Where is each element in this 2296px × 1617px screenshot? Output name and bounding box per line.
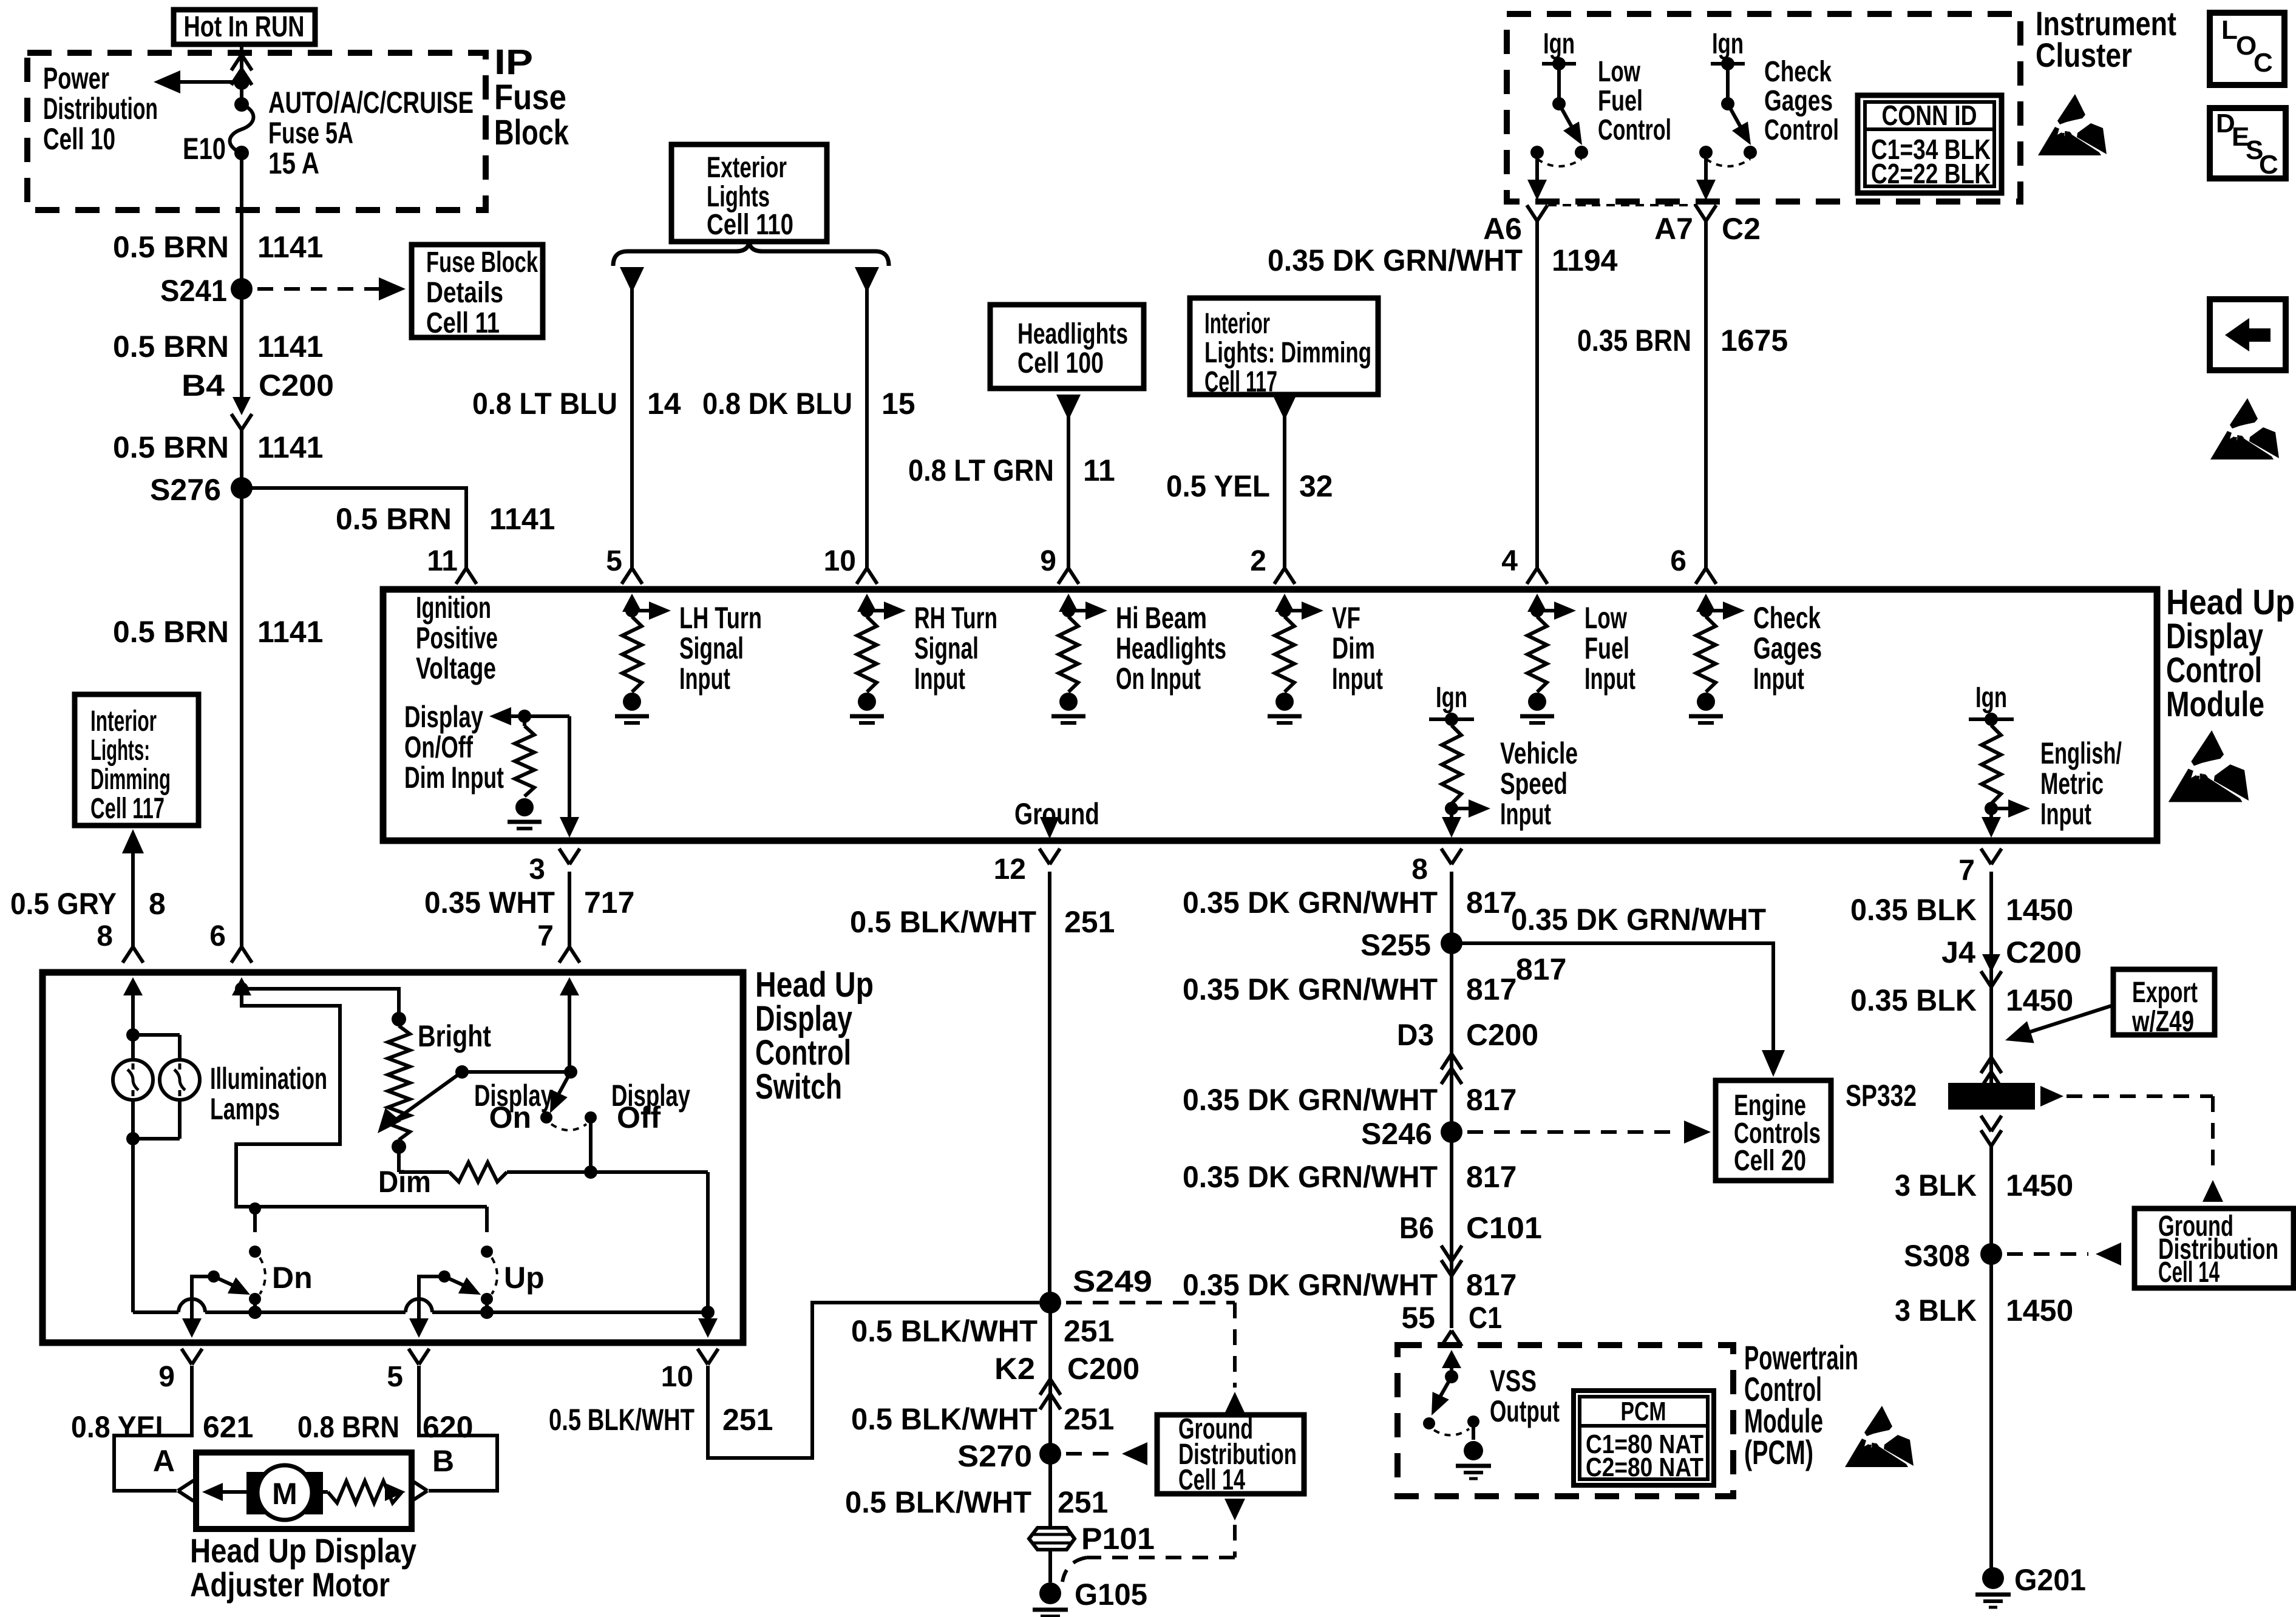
svg-text:C2: C2	[1722, 212, 1761, 246]
svg-text:Fuel: Fuel	[1598, 85, 1643, 117]
switch pin 5	[387, 1349, 429, 1393]
svg-text:817: 817	[1466, 1268, 1517, 1302]
label 0.35 BLK 1450 (row1)	[1850, 893, 2073, 927]
module pin 8	[1411, 849, 1462, 886]
svg-text:1141: 1141	[257, 330, 323, 364]
svg-text:VF: VF	[1332, 601, 1360, 635]
wire: SP332 to S308 (3 BLK 1450)	[1989, 1146, 1993, 1254]
wire: 0.8 BRN 620 pin5 to motor B	[419, 1366, 497, 1491]
svg-text:S270: S270	[957, 1439, 1032, 1473]
splice SP332	[1846, 1079, 2035, 1113]
wire: RH turn signal feed (0.8 DK BLU 15)	[855, 267, 879, 568]
connector chevrons above SP332	[1981, 1057, 2002, 1088]
svg-text:Control: Control	[1598, 114, 1671, 146]
wire: S308 to G201 (3 BLK 1450)	[1989, 1254, 1993, 1578]
connector C200 pin K2	[994, 1352, 1140, 1409]
svg-text:S246: S246	[1361, 1117, 1432, 1151]
label 0.35 DK GRN/WHT 1194	[1268, 243, 1618, 277]
dashed ref: SP332 to Ground Distribution (right)	[2040, 1086, 2223, 1202]
label English/Metric Input	[2040, 736, 2122, 831]
cluster conn pin A7	[1654, 205, 1761, 246]
module pin 2	[1250, 545, 1295, 584]
label 0.35 BLK 1450 (row2)	[1850, 983, 2073, 1017]
splice S241	[160, 274, 253, 308]
label Low Fuel Control	[1598, 56, 1671, 146]
svg-text:S241: S241	[160, 274, 227, 308]
svg-text:0.5 GRY: 0.5 GRY	[10, 887, 117, 921]
label 0.35 DK GRN/WHT 817 (row1)	[1183, 886, 1517, 920]
splice S255	[1360, 928, 1462, 962]
svg-text:1141: 1141	[489, 502, 555, 536]
svg-text:1675: 1675	[1720, 324, 1788, 358]
svg-text:11: 11	[1083, 453, 1115, 487]
svg-text:J4: J4	[1941, 935, 1975, 969]
svg-text:251: 251	[1064, 1314, 1114, 1348]
display switch Off contact	[585, 1100, 661, 1134]
svg-text:Output: Output	[1490, 1394, 1560, 1428]
wire: 0.8 YEL 621 pin9 to motor A	[114, 1366, 192, 1491]
svg-text:Positive: Positive	[416, 621, 498, 655]
svg-text:0.5 BLK/WHT: 0.5 BLK/WHT	[851, 1402, 1038, 1436]
ESD symbol (below arrow box)	[2210, 398, 2279, 459]
wire: 0.5 BLK/WHT 251 pin10 path to S249	[708, 1303, 1039, 1458]
label 0.8 YEL 621	[71, 1410, 253, 1444]
Power Distribution Cell 10 label	[43, 61, 158, 156]
fuse value label AUTO/A/C/CRUISE Fuse 5A 15 A	[268, 86, 474, 180]
label 0.35 DK GRN/WHT 817 (row3)	[1183, 1083, 1517, 1117]
svg-text:0.8 LT BLU: 0.8 LT BLU	[472, 387, 617, 421]
ref box: Export w/Z49	[2113, 969, 2215, 1038]
svg-text:RH Turn: RH Turn	[914, 601, 997, 635]
Instrument Cluster dashed outline	[1507, 14, 2020, 202]
svg-text:9: 9	[1040, 545, 1056, 577]
svg-text:On/Off: On/Off	[404, 730, 473, 764]
wire: check gages out to A7	[1696, 152, 1716, 200]
svg-text:0.8 LT GRN: 0.8 LT GRN	[908, 453, 1054, 487]
ground G105	[1033, 1578, 1147, 1617]
label Vehicle Speed Input	[1500, 736, 1578, 831]
label 0.5 BLK/WHT 251 (above P101)	[845, 1485, 1108, 1519]
svg-text:1450: 1450	[2006, 893, 2073, 927]
wire: S276 branch to module pin 11	[242, 488, 466, 568]
back-arrow reference box	[2210, 299, 2286, 370]
wire: 0.5 BLK/WHT 251 S249 to C200 K2	[1048, 1303, 1052, 1454]
svg-text:Speed: Speed	[1500, 767, 1567, 801]
svg-text:6: 6	[1670, 545, 1686, 577]
wire: P101 to G105	[1048, 1550, 1052, 1582]
svg-text:G201: G201	[2014, 1563, 2086, 1597]
label 0.35 DK GRN/WHT (branch)	[1511, 903, 1766, 937]
svg-text:S249: S249	[1073, 1264, 1152, 1298]
svg-text:Dim: Dim	[1332, 631, 1375, 665]
wire: 0.5 BRN 1141 S276 down to switch pin 6	[240, 488, 243, 947]
switch pin 6 entry arrow	[232, 977, 251, 1006]
svg-text:Display: Display	[404, 700, 483, 734]
svg-text:Metric: Metric	[2040, 767, 2104, 801]
wire: Off contact to dim line	[584, 1117, 597, 1179]
svg-text:Adjuster Motor: Adjuster Motor	[190, 1565, 390, 1604]
svg-text:Low: Low	[1584, 601, 1627, 635]
svg-text:Signal: Signal	[914, 631, 979, 665]
ESD symbol (instrument cluster)	[2038, 94, 2107, 155]
connector face dashed link A6-A7	[1548, 204, 1696, 206]
label 0.8 DK BLU 15	[702, 387, 915, 421]
svg-text:B: B	[432, 1444, 454, 1478]
module pin 12	[994, 849, 1060, 886]
connector C101 pin B6	[1399, 1211, 1542, 1276]
wire: 0.5 BRN 1141 fuse to S241	[240, 153, 243, 289]
wire: Up pivot to pin 5	[409, 1276, 444, 1338]
splice S246	[1361, 1117, 1462, 1151]
switch pin 7	[537, 920, 580, 963]
IP Fuse Block dashed outline	[27, 53, 486, 210]
svg-text:Cell 117: Cell 117	[90, 793, 165, 825]
svg-text:1450: 1450	[2006, 1293, 2073, 1327]
module input: Hi Beam Headlights On Input (pin 9)	[1051, 594, 1226, 723]
svg-text:Check: Check	[1764, 56, 1832, 88]
svg-text:C200: C200	[1466, 1018, 1538, 1052]
svg-text:C200: C200	[1067, 1352, 1140, 1386]
svg-text:Vehicle: Vehicle	[1500, 736, 1578, 770]
svg-text:7: 7	[1958, 855, 1975, 887]
LOC reference box	[2210, 13, 2284, 85]
Up switch pivot and arm	[438, 1270, 481, 1295]
svg-text:Interior: Interior	[90, 705, 157, 737]
wire: low fuel out to A6	[1527, 152, 1547, 200]
ground G201	[1975, 1563, 2086, 1607]
svg-text:0.5 BRN: 0.5 BRN	[113, 615, 229, 649]
connector C200 pin D3	[1397, 1018, 1538, 1084]
fuse label E10	[183, 132, 226, 166]
svg-text:251: 251	[722, 1403, 773, 1437]
wire: hi beam feed (0.8 LT GRN 11)	[1056, 395, 1081, 568]
module pin 6	[1670, 545, 1716, 584]
display on/off switch arm	[550, 1072, 571, 1113]
motor internal resistor	[323, 1481, 406, 1503]
svg-text:717: 717	[584, 886, 634, 920]
fuse E10 AUTO/A/C/CRUISE 5A	[230, 97, 254, 160]
ESD symbol (module)	[2169, 730, 2249, 802]
label Check Gages Control	[1764, 56, 1839, 146]
svg-text:Ign: Ign	[1543, 28, 1575, 60]
svg-text:0.35 DK GRN/WHT: 0.35 DK GRN/WHT	[1183, 1083, 1438, 1117]
svg-text:0.35 BLK: 0.35 BLK	[1850, 983, 1977, 1017]
ref box: Ground Distribution Cell 14 (right)	[2135, 1209, 2294, 1289]
switch pin 7 entry arrow	[560, 977, 579, 1072]
display on/off switch common	[564, 1065, 577, 1079]
svg-text:K2: K2	[994, 1352, 1035, 1386]
svg-text:0.8 BRN: 0.8 BRN	[297, 1410, 399, 1444]
svg-text:Cell 117: Cell 117	[1204, 366, 1277, 398]
wire: rail to pin 10	[698, 1312, 718, 1338]
svg-text:Head Up Display: Head Up Display	[190, 1531, 416, 1570]
svg-text:11: 11	[427, 545, 458, 577]
svg-text:Hot In RUN: Hot In RUN	[184, 11, 305, 43]
svg-text:32: 32	[1299, 469, 1333, 503]
wire: wiper to display switch common	[462, 1070, 571, 1074]
switch pin 10	[661, 1349, 718, 1393]
label 0.8 LT BLU 14	[472, 387, 681, 421]
Dn switch lower contact	[249, 1293, 261, 1312]
svg-text:C101: C101	[1466, 1211, 1542, 1245]
ground rail inside switch	[133, 1299, 715, 1319]
wire: VF dim feed (0.5 YEL 32)	[1272, 395, 1297, 568]
svg-text:Fuel: Fuel	[1584, 631, 1629, 665]
svg-text:9: 9	[158, 1361, 175, 1393]
svg-text:C2=80 NAT: C2=80 NAT	[1586, 1453, 1703, 1482]
svg-text:0.8 YEL: 0.8 YEL	[71, 1410, 172, 1444]
svg-text:C200: C200	[2006, 935, 2082, 969]
motor terminal B	[412, 1444, 454, 1501]
VSS output switch	[1423, 1370, 1479, 1440]
label 0.5 GRY 8	[10, 887, 166, 921]
svg-text:Input: Input	[1584, 662, 1635, 696]
label 0.5 BRN 1141 (below C200)	[113, 430, 323, 464]
svg-text:IP: IP	[494, 42, 533, 82]
svg-text:Interior: Interior	[1204, 308, 1270, 340]
svg-text:Input: Input	[1332, 662, 1383, 696]
module pin 9	[1040, 545, 1079, 584]
module english/metric input circuit (pin 7)	[1969, 682, 2030, 838]
wire: Dn pivot to pin 9	[182, 1276, 214, 1338]
label 0.5 BLK/WHT 251 (above S270)	[851, 1402, 1114, 1436]
svg-text:Control: Control	[1764, 114, 1839, 146]
module pin 3 exit	[529, 849, 580, 886]
wire: 0.35 BLK 1450 pin7 to SP332	[1989, 872, 1993, 1083]
svg-text:0.5 BRN: 0.5 BRN	[113, 430, 229, 464]
ref box: Fuse Block Details Cell 11	[412, 245, 543, 339]
wire: pin6 dogleg to Dn/Up feed line	[236, 989, 487, 1207]
label 0.5 BRN 1141 (above S241)	[113, 230, 323, 264]
label 817 (branch)	[1516, 952, 1566, 986]
svg-text:w/Z49: w/Z49	[2131, 1006, 2194, 1038]
svg-text:Fuse 5A: Fuse 5A	[268, 116, 353, 150]
svg-text:621: 621	[203, 1410, 253, 1444]
label 0.5 BRN 1141 (below S241)	[113, 330, 323, 364]
svg-text:0.35 DK GRN/WHT: 0.35 DK GRN/WHT	[1183, 972, 1438, 1006]
svg-text:C: C	[2259, 150, 2278, 180]
svg-text:S255: S255	[1360, 928, 1431, 962]
svg-text:8: 8	[149, 887, 166, 921]
svg-text:12: 12	[994, 853, 1026, 886]
ref box: Engine Controls Cell 20	[1716, 1080, 1831, 1181]
wire: dim line down to rail	[706, 1172, 710, 1312]
svg-text:Headlights: Headlights	[1116, 631, 1226, 665]
svg-text:0.35 DK GRN/WHT: 0.35 DK GRN/WHT	[1511, 903, 1766, 937]
svg-text:1450: 1450	[2006, 983, 2073, 1017]
potentiometer Dim terminal	[378, 1139, 431, 1199]
check gages control switch Ign feed	[1711, 28, 1745, 110]
wire: S246 to PCM pin 55	[1450, 1132, 1453, 1328]
svg-text:Voltage: Voltage	[416, 651, 496, 685]
label 0.5 BLK/WHT 251 (pin12)	[850, 905, 1115, 939]
svg-text:1141: 1141	[257, 615, 323, 649]
switch pin 8 entry arrow	[123, 977, 143, 1035]
module pin 10	[824, 545, 877, 584]
svg-text:Power: Power	[43, 61, 109, 95]
Powertrain Control Module dashed outline	[1398, 1345, 1733, 1496]
svg-text:1194: 1194	[1552, 243, 1618, 277]
svg-text:3 BLK: 3 BLK	[1895, 1168, 1977, 1202]
svg-text:Cluster: Cluster	[2036, 36, 2132, 74]
svg-text:E10: E10	[183, 132, 226, 166]
label 0.5 BLK/WHT 251 (above K2)	[851, 1314, 1114, 1348]
CONN ID table	[1858, 95, 2002, 193]
svg-text:Illumination: Illumination	[210, 1062, 327, 1096]
label 0.35 DK GRN/WHT 817 (row2)	[1183, 972, 1517, 1006]
module input: Low Fuel Input (pin 4)	[1520, 594, 1635, 723]
low fuel control switch arm	[1559, 104, 1582, 145]
svg-text:Ignition: Ignition	[416, 591, 491, 625]
svg-text:251: 251	[1058, 1485, 1108, 1519]
svg-text:Cell 20: Cell 20	[1734, 1145, 1806, 1177]
splice S270	[957, 1439, 1061, 1473]
svg-text:0.5 BRN: 0.5 BRN	[113, 330, 229, 364]
svg-text:PCM: PCM	[1621, 1397, 1666, 1426]
svg-text:0.5 BLK/WHT: 0.5 BLK/WHT	[850, 905, 1036, 939]
connector C200 pin B4	[182, 368, 334, 430]
svg-text:Cell 110: Cell 110	[707, 209, 793, 241]
svg-text:15 A: 15 A	[268, 146, 319, 180]
svg-text:0.35 DK GRN/WHT: 0.35 DK GRN/WHT	[1268, 243, 1523, 277]
svg-text:5: 5	[387, 1361, 403, 1393]
connector C200 pin J4	[1941, 935, 2082, 987]
switch pin 8	[97, 920, 143, 963]
node: pin6 feed split	[235, 982, 248, 995]
wire: 0.5 BLK/WHT 251 module pin12 to S249	[1048, 872, 1051, 1303]
svg-text:3 BLK: 3 BLK	[1895, 1293, 1977, 1327]
svg-text:Hi Beam: Hi Beam	[1116, 601, 1207, 635]
svg-text:Cell 14: Cell 14	[2158, 1256, 2220, 1289]
svg-text:Ground: Ground	[1014, 797, 1099, 831]
module input: RH Turn Signal Input (pin 10)	[850, 594, 997, 723]
label VSS Output	[1490, 1364, 1560, 1428]
ref box: Exterior Lights Cell 110	[671, 144, 827, 242]
VSS output ground	[1456, 1441, 1491, 1479]
Instrument Cluster name label	[2036, 4, 2176, 74]
svg-text:Up: Up	[504, 1261, 545, 1295]
module pin 4	[1501, 545, 1547, 584]
potentiometer wiper arrow	[378, 1065, 469, 1133]
svg-text:Display: Display	[474, 1079, 553, 1113]
dashed ref: S246 to Engine Controls	[1467, 1120, 1711, 1144]
svg-text:English/: English/	[2040, 736, 2122, 770]
svg-text:S276: S276	[150, 473, 221, 507]
DESC reference box	[2210, 108, 2286, 180]
label Ignition Positive Voltage	[416, 591, 498, 685]
svg-text:Dimming: Dimming	[90, 764, 171, 796]
Up switch upper contact	[481, 1207, 493, 1258]
svg-text:14: 14	[647, 387, 681, 421]
svg-text:0.5 BLK/WHT: 0.5 BLK/WHT	[845, 1485, 1031, 1519]
svg-text:251: 251	[1064, 905, 1115, 939]
svg-text:C200: C200	[259, 368, 334, 402]
wire: S255 to S246	[1450, 943, 1453, 1132]
switch name label	[755, 965, 874, 1107]
wire: pin6 to bright pot	[242, 989, 399, 1012]
svg-text:Cell 14: Cell 14	[1178, 1464, 1245, 1496]
module vehicle speed input circuit (pin 8)	[1429, 682, 1490, 838]
svg-text:Switch: Switch	[755, 1067, 842, 1107]
wire: lamps to ground rail	[131, 1139, 135, 1312]
svg-text:S308: S308	[1904, 1239, 1970, 1273]
wire: Dim output line	[399, 1147, 708, 1182]
svg-text:Ign: Ign	[1712, 28, 1744, 60]
svg-text:On Input: On Input	[1116, 662, 1201, 696]
potentiometer resistor	[388, 1026, 410, 1140]
wire: 0.5 GRY 8 to switch pin 8	[122, 829, 144, 947]
svg-text:M: M	[272, 1477, 297, 1511]
dashed ref: S270 to Ground Distribution	[1066, 1442, 1147, 1465]
svg-text:1450: 1450	[2006, 1168, 2073, 1202]
svg-text:C1: C1	[1469, 1301, 1502, 1335]
Head Up Display Control Module box	[383, 589, 2157, 841]
svg-text:Display: Display	[611, 1079, 690, 1113]
svg-text:1141: 1141	[257, 230, 323, 264]
svg-text:L: L	[2221, 15, 2238, 45]
svg-text:0.5 BRN: 0.5 BRN	[336, 502, 452, 536]
label 0.5 BLK/WHT 251 (pin10)	[549, 1403, 773, 1437]
wire: A7 to module pin 6 (0.35 BRN 1675)	[1704, 221, 1708, 568]
svg-text:251: 251	[1064, 1402, 1114, 1436]
svg-text:2: 2	[1250, 545, 1266, 577]
low fuel control switch Ign feed	[1542, 28, 1576, 110]
svg-text:Input: Input	[914, 662, 965, 696]
svg-text:Cell 10: Cell 10	[43, 122, 115, 156]
module pin 7	[1958, 849, 2002, 887]
splice S249	[1039, 1264, 1152, 1314]
svg-text:10: 10	[661, 1361, 693, 1393]
svg-text:Dim: Dim	[378, 1165, 431, 1199]
svg-text:C: C	[2254, 48, 2273, 78]
illumination lamps pair	[113, 1028, 200, 1145]
svg-text:0.5 BRN: 0.5 BRN	[113, 230, 229, 264]
svg-text:LH Turn: LH Turn	[679, 601, 762, 635]
label 0.8 LT GRN 11	[908, 453, 1115, 487]
svg-text:0.35 WHT: 0.35 WHT	[424, 886, 555, 920]
PCM conn id table	[1574, 1391, 1714, 1485]
splice S276	[150, 473, 253, 507]
switch pin 9	[158, 1349, 202, 1393]
svg-text:0.35 DK GRN/WHT: 0.35 DK GRN/WHT	[1183, 1268, 1438, 1302]
svg-text:Block: Block	[494, 113, 569, 152]
svg-text:Lamps: Lamps	[210, 1092, 280, 1126]
svg-text:Bright: Bright	[418, 1019, 491, 1053]
wire: 0.35 WHT 717 module pin3 to switch pin7	[568, 872, 571, 947]
svg-text:D3: D3	[1397, 1018, 1434, 1052]
PCM entry arrow	[1442, 1350, 1461, 1377]
check gages control switch arm	[1728, 104, 1751, 145]
svg-text:Export: Export	[2132, 977, 2198, 1009]
arrow: Export box to wire	[2005, 1005, 2113, 1043]
svg-text:3: 3	[529, 853, 545, 886]
svg-text:A7: A7	[1654, 212, 1693, 246]
svg-text:Cell 100: Cell 100	[1017, 347, 1104, 379]
ref box: Interior Lights Dimming Cell 117 (top)	[1190, 298, 1378, 398]
dashed ref: S308 to Ground Distribution (right)	[2007, 1242, 2121, 1266]
svg-text:0.35 BRN: 0.35 BRN	[1577, 324, 1691, 358]
label Display (off)	[611, 1079, 690, 1113]
svg-text:0.5 BLK/WHT: 0.5 BLK/WHT	[549, 1403, 695, 1437]
svg-text:B4: B4	[182, 368, 225, 402]
motor terminal A	[153, 1444, 194, 1501]
label 0.35 DK GRN/WHT 817 (row4)	[1183, 1160, 1517, 1194]
label 3 BLK 1450 (row1)	[1895, 1168, 2073, 1202]
label Up	[504, 1261, 545, 1295]
label Illumination Lamps	[210, 1062, 327, 1126]
Dn switch pivot and arm	[208, 1270, 250, 1295]
display switch arc	[551, 1124, 586, 1130]
